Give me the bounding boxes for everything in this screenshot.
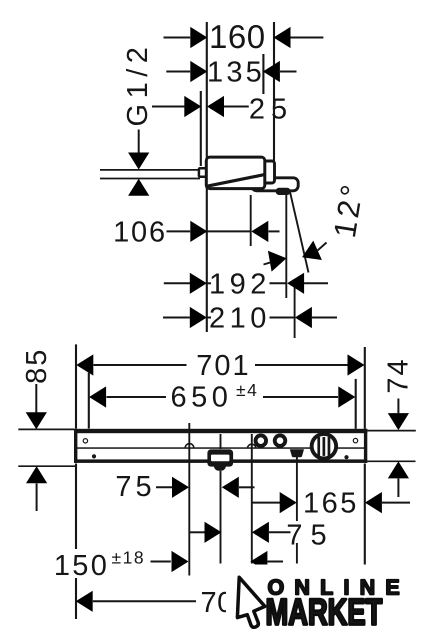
svg-text:150: 150 (54, 550, 109, 582)
G1/2 arrow up (128, 179, 149, 196)
extension line 701 left lower (75, 464, 77, 550)
svg-text:75: 75 (115, 471, 155, 503)
svg-text:MARKET: MARKET (266, 591, 383, 632)
svg-text:650: 650 (171, 382, 233, 414)
svg-text:135: 135 (207, 57, 265, 89)
select button 1 (254, 434, 268, 448)
extension line 701 right (364, 347, 366, 429)
shower tablet bar front view (74, 429, 367, 471)
dot left (92, 454, 96, 458)
dimension 25 (152, 93, 293, 125)
screw right (353, 438, 357, 442)
svg-text:25: 25 (249, 93, 293, 125)
aerator nub (276, 188, 291, 195)
main body (206, 157, 264, 189)
bottom ledge line left (18, 465, 75, 467)
74 leader upper (397, 399, 399, 414)
dimension 75 row1 (115, 471, 254, 503)
centre line cold supply (251, 434, 253, 564)
bar bottom edge (74, 459, 367, 463)
dimension 210 (163, 303, 337, 335)
lower drawing: extension line 701 left (75, 344, 77, 428)
screw left (83, 439, 87, 443)
dimension 160 (164, 18, 324, 55)
slanted 12deg line (290, 191, 309, 273)
body diagonal edge (209, 175, 265, 186)
dimension 700 bottom (76, 587, 251, 619)
spout box (207, 449, 233, 466)
extension line 650 left (88, 373, 90, 429)
dimension 135 (166, 57, 296, 89)
top edge extension left (18, 428, 74, 430)
supply pipe lower (100, 178, 200, 180)
85 tail lower (36, 484, 38, 512)
extension line wall (top drawing left) (206, 22, 208, 332)
dimension 650 +-4 (89, 380, 355, 414)
85 arrow down (26, 412, 47, 429)
74 arrow down (388, 413, 409, 430)
extension line 135 right (262, 54, 264, 94)
bar inner line (76, 447, 365, 449)
spout outlet centre line (250, 195, 252, 246)
centre line hot supply (188, 423, 190, 576)
supply pipe upper (100, 169, 200, 171)
svg-text:74: 74 (383, 357, 415, 393)
dimension 701 (76, 350, 364, 382)
G1/2 leader line (138, 130, 140, 154)
bar left edge (74, 429, 77, 463)
spout bulge (214, 465, 226, 471)
dimension 165 (253, 488, 411, 520)
marker dome right (247, 444, 256, 448)
select button 2 (273, 434, 287, 448)
upper right connection piece (263, 161, 275, 183)
74 arrow up (388, 461, 409, 478)
dimension 75 row2 (190, 520, 335, 552)
12deg leader left arrow (264, 248, 289, 272)
wall connector (199, 168, 207, 177)
thermostat knob (310, 432, 338, 460)
74 tail lower (397, 479, 399, 498)
extension line right lower (364, 464, 366, 568)
logo white background (226, 565, 436, 640)
svg-text:160: 160 (209, 18, 266, 55)
extension line right 160 (273, 22, 275, 162)
diverter boat (290, 449, 304, 457)
dimension 106 (113, 216, 279, 248)
svg-text:192: 192 (209, 268, 271, 300)
faucet side view group (199, 157, 298, 195)
centre line diverter (296, 457, 298, 521)
extension line 650 right (355, 379, 357, 429)
extension line 25 left (200, 91, 202, 166)
svg-text:G1/2: G1/2 (122, 42, 154, 127)
logo cursor icon (237, 577, 265, 627)
G1/2 arrow down (128, 153, 149, 170)
spout slot (211, 455, 229, 462)
top edge extension right (364, 430, 416, 432)
bar top edge (74, 429, 367, 433)
marker dome left (185, 444, 194, 448)
85 arrow up (26, 466, 47, 483)
bar white face (74, 429, 367, 463)
bar right edge (364, 429, 367, 463)
svg-text:±18: ±18 (112, 548, 146, 568)
85 leader upper (35, 384, 37, 413)
dot right (344, 455, 348, 459)
spout bar (252, 178, 299, 191)
centre line spout axis (220, 434, 222, 449)
svg-text:210: 210 (209, 303, 271, 335)
svg-text:165: 165 (303, 488, 359, 520)
dimension 150 +-18 (54, 548, 283, 582)
svg-text:85: 85 (21, 348, 53, 384)
vertical reference line 12deg (285, 194, 287, 298)
svg-text:701: 701 (196, 350, 250, 382)
svg-text:106: 106 (113, 216, 167, 248)
12deg leader right arrow (298, 241, 327, 267)
spout tip extension line (294, 279, 296, 338)
svg-text:75: 75 (286, 520, 334, 552)
dimension 192 (164, 268, 328, 300)
svg-text:±4: ±4 (236, 380, 258, 400)
bottom ledge line right (368, 460, 416, 462)
